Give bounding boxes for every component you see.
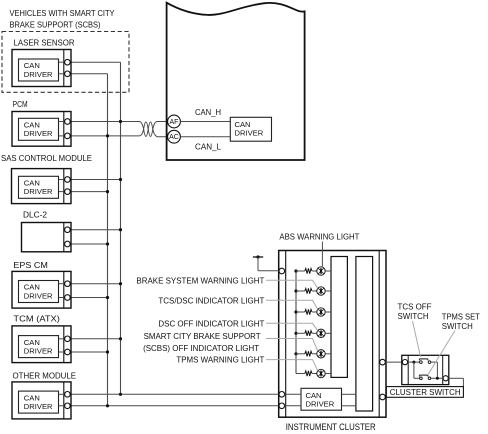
note: vehicles with SCBS (10, 9, 116, 30)
svg-text:TPMS SET: TPMS SET (442, 312, 480, 321)
pin AF (168, 115, 181, 128)
instrument cluster enclosure (279, 251, 386, 418)
svg-text:ABS WARNING LIGHT: ABS WARNING LIGHT (279, 232, 359, 241)
wire CAN_L from OTHER MODULE to instrument cluster (71, 405, 279, 407)
leader line to lamp 6 (266, 360, 318, 371)
cluster inner block 1 (331, 257, 347, 378)
CAN driver of DSC module (230, 117, 271, 141)
wire TCM (ATX) CAN_H stub (71, 338, 121, 340)
pins of SAS CONTROL MODULE (65, 177, 71, 183)
svg-text:BRAKE SUPPORT (SCBS): BRAKE SUPPORT (SCBS) (10, 21, 101, 30)
pin cluster switch in (402, 360, 407, 365)
pin cluster switch out (443, 376, 448, 381)
wire EPS CM CAN_H stub (71, 283, 121, 285)
svg-text:SWITCH: SWITCH (442, 322, 473, 331)
svg-text:TCS/DSC INDICATOR LIGHT: TCS/DSC INDICATOR LIGHT (158, 296, 264, 305)
wire DLC-2 CAN_L stub (71, 243, 108, 245)
leader TCS OFF switch (413, 321, 421, 357)
cluster switch enclosure (402, 355, 449, 384)
leader line to lamp 3 (266, 300, 318, 309)
pin AC (168, 130, 181, 143)
svg-text:VEHICLES WITH SMART CITY: VEHICLES WITH SMART CITY (10, 9, 116, 18)
leader line to lamp 5 (266, 339, 318, 352)
wire CAN_H from OTHER MODULE to instrument cluster (71, 393, 279, 395)
lamp row: ABS warning light (294, 267, 331, 275)
CAN driver of PCM (19, 118, 59, 140)
CAN_L bus wire (vertical) (107, 74, 109, 406)
lamp row: TPMS warning light (296, 369, 331, 377)
svg-text:CAN_L: CAN_L (195, 143, 222, 152)
svg-text:BRAKE SYSTEM WARNING LIGHT: BRAKE SYSTEM WARNING LIGHT (136, 276, 264, 285)
svg-text:DRIVER: DRIVER (24, 402, 53, 411)
module OTHER MODULE (12, 371, 76, 419)
svg-text:TCS OFF: TCS OFF (398, 302, 432, 311)
svg-text:AF: AF (170, 119, 179, 126)
svg-text:DSC OFF INDICATOR LIGHT: DSC OFF INDICATOR LIGHT (158, 319, 264, 328)
lamp row: TCS/DSC indicator light (294, 308, 331, 316)
module DLC-2 (22, 210, 72, 252)
svg-text:CAN_H: CAN_H (195, 108, 221, 117)
CAN_H bus wire (vertical) (120, 62, 122, 394)
DSC module (partial outline with wavy top) (167, 3, 305, 160)
CAN driver of TCM (ATX) (19, 336, 59, 358)
module SAS CONTROL MODULE (1, 154, 92, 203)
lamp row: DSC OFF indicator light (294, 329, 331, 337)
TPMS SET switch contacts (419, 375, 431, 380)
pins of PCM (65, 119, 71, 125)
cluster inner block 2 (356, 257, 373, 412)
svg-text:PCM: PCM (13, 100, 28, 109)
svg-text:DRIVER: DRIVER (24, 70, 53, 79)
wire DLC-2 CAN_H stub (71, 229, 121, 231)
pins of TCM (ATX) (65, 336, 71, 342)
wire SAS CONTROL MODULE CAN_H stub (71, 179, 121, 181)
wire EPS CM CAN_L stub (71, 297, 108, 299)
svg-text:DRIVER: DRIVER (306, 399, 335, 408)
CAN driver of SAS CONTROL MODULE (19, 176, 59, 198)
wire cluster CAN_H internal (285, 393, 301, 395)
CAN driver of LASER SENSOR (19, 59, 59, 81)
wire cluster CAN_L internal (285, 405, 301, 407)
svg-text:SWITCH: SWITCH (398, 312, 429, 321)
svg-text:SMART CITY BRAKE SUPPORT: SMART CITY BRAKE SUPPORT (144, 332, 261, 341)
svg-text:AC: AC (169, 134, 179, 141)
pin instrument cluster power (279, 268, 285, 274)
wire PCM CAN_H to bus and twisted pair (71, 121, 140, 123)
wire cluster to cluster switch (385, 361, 402, 363)
svg-text:INSTRUMENT CLUSTER: INSTRUMENT CLUSTER (286, 422, 376, 432)
pins of EPS CM (65, 281, 71, 287)
svg-text:DLC-2: DLC-2 (23, 210, 48, 219)
wire TCM (ATX) CAN_L stub (71, 351, 108, 353)
CAN driver of EPS CM (19, 281, 59, 303)
wire CAN_L inside DSC module (180, 136, 230, 138)
leader line to lamp 4 (266, 323, 318, 330)
leader line to lamp 2 (266, 280, 318, 288)
module TCM (ATX) (12, 314, 71, 362)
svg-text:DRIVER: DRIVER (235, 129, 264, 138)
twisted pair between PCM and DSC module (140, 122, 168, 137)
pin cluster to switch (380, 359, 386, 365)
svg-text:DRIVER: DRIVER (24, 129, 53, 138)
svg-text:LASER SENSOR: LASER SENSOR (14, 38, 75, 47)
leader TPMS SET switch (428, 331, 455, 375)
wire LASER SENSOR CAN_H stub (71, 61, 121, 63)
cluster switch label plate (386, 387, 463, 398)
lamp row: brake system warning light (294, 287, 331, 295)
pins of LASER SENSOR (65, 59, 71, 65)
wire CAN_H inside DSC module (180, 121, 230, 123)
CAN driver of OTHER MODULE (19, 391, 59, 413)
wire TPMS switch to output (431, 377, 443, 379)
power feed node (253, 255, 279, 270)
wire LASER SENSOR CAN_L stub (71, 73, 108, 75)
svg-text:TCM (ATX): TCM (ATX) (13, 314, 60, 323)
module LASER SENSOR (12, 38, 75, 86)
svg-text:SAS CONTROL MODULE: SAS CONTROL MODULE (1, 154, 92, 163)
pins of DLC-2 (65, 227, 71, 233)
junction in cluster switch (408, 361, 420, 363)
pins instrument cluster CAN (279, 392, 285, 398)
module PCM (12, 100, 71, 146)
svg-text:OTHER MODULE: OTHER MODULE (13, 371, 77, 380)
wire PCM CAN_L to bus and twisted pair (71, 135, 140, 137)
svg-text:DRIVER: DRIVER (24, 291, 53, 300)
CAN driver of instrument cluster (301, 388, 342, 410)
TCS OFF switch contacts (419, 359, 431, 364)
svg-text:(SCBS) OFF INDICATOR LIGHT: (SCBS) OFF INDICATOR LIGHT (143, 344, 259, 353)
svg-text:DRIVER: DRIVER (24, 187, 53, 196)
cluster lamp supply bus (295, 271, 297, 374)
wire cluster switch return (448, 377, 463, 379)
wire TCS switch to output (431, 361, 438, 363)
svg-text:TPMS WARNING LIGHT: TPMS WARNING LIGHT (176, 356, 264, 365)
pins of OTHER MODULE (65, 392, 71, 398)
SCBS dashed enclosure (2, 32, 129, 93)
svg-text:DRIVER: DRIVER (24, 346, 53, 355)
lamp row: SCBS OFF indicator light (294, 350, 331, 358)
wire SAS CONTROL MODULE CAN_L stub (71, 191, 108, 193)
pin cluster switch return (380, 394, 386, 400)
svg-text:CLUSTER SWITCH: CLUSTER SWITCH (390, 388, 461, 397)
module EPS CM (12, 261, 71, 308)
svg-text:EPS CM: EPS CM (13, 261, 48, 270)
